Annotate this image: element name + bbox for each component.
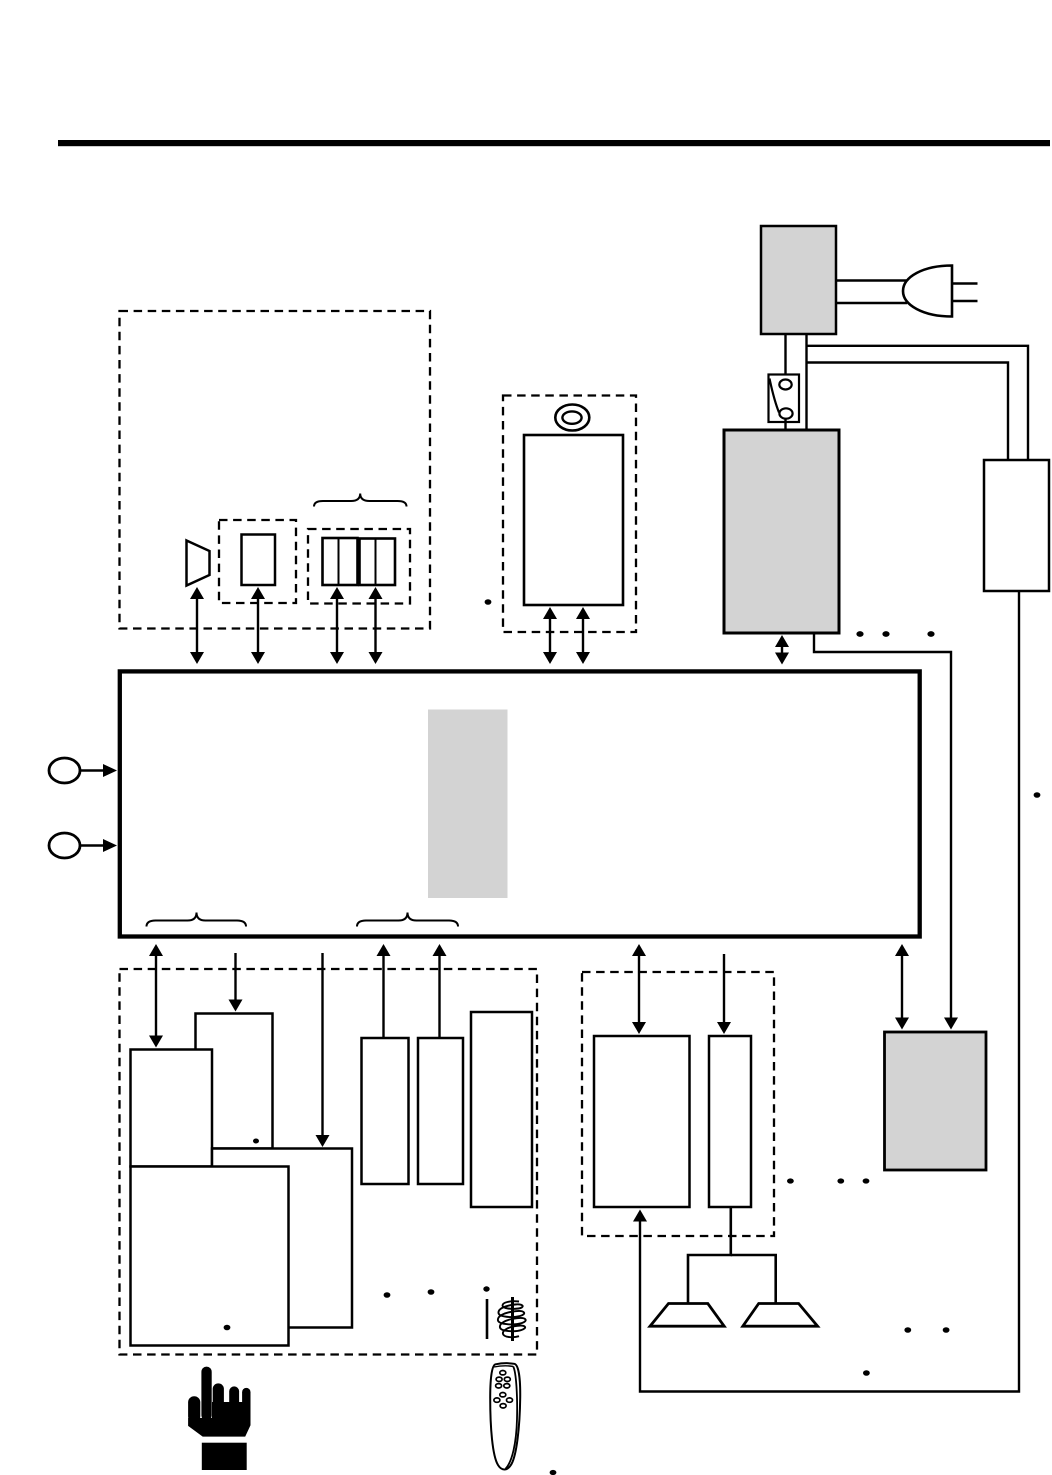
key board 2 divider (375, 539, 377, 586)
wire switch to power supply (784, 418, 786, 430)
brace over key boards (314, 494, 407, 507)
wire transformer to switch (784, 334, 786, 380)
key board 2 (360, 539, 396, 586)
dot right margin (1034, 792, 1041, 798)
remote control body (490, 1363, 520, 1469)
coil scribble (498, 1301, 526, 1337)
dot in R1 (253, 1139, 259, 1144)
double arrow key board 1 to main board (330, 587, 344, 664)
switch lever (770, 379, 780, 413)
wire power supply to power amp block (814, 633, 951, 1022)
voltage selector box (984, 460, 1049, 591)
rect R3 (212, 1149, 352, 1328)
CD servo board rectangle (524, 435, 623, 605)
remote control thickness line (506, 1366, 518, 1468)
double arrow speaker to main board (190, 587, 204, 664)
display unit dashed box (219, 520, 296, 603)
main board box (120, 671, 920, 936)
switch contact lower (779, 408, 792, 418)
main board gray block (428, 710, 508, 899)
speaker trapezoid icon (187, 541, 210, 586)
input jack circle 1 (49, 758, 80, 783)
brace bottom-right inside main board (357, 913, 458, 927)
rect E (471, 1012, 532, 1207)
wire to voltage selector (outer) (807, 346, 1029, 460)
stem of i glyph (486, 1299, 489, 1339)
arrowhead up into rect F bottom (633, 1210, 647, 1222)
bottom-middle dashed box (582, 972, 774, 1236)
plug prong lower (952, 300, 978, 303)
dot below rect D (428, 1289, 435, 1295)
key boards dashed box (308, 529, 410, 604)
dot in R4 (224, 1325, 231, 1331)
double arrow display to main board (251, 587, 265, 664)
coil axis line (511, 1297, 514, 1341)
AC cord wire upper (836, 279, 907, 281)
double arrow main board to rect F (632, 944, 646, 1034)
rect R2 (131, 1050, 213, 1167)
arrow jack 1 into main board (80, 764, 117, 777)
remote buttons (494, 1371, 513, 1409)
rect D (418, 1038, 463, 1184)
rect C (362, 1038, 409, 1184)
right speaker trapezoid (743, 1304, 818, 1327)
input jack circle 2 (49, 833, 80, 858)
top rule (58, 140, 1050, 146)
power amp block (gray) (885, 1032, 987, 1170)
switch contact upper (779, 380, 791, 390)
left speaker trapezoid (650, 1304, 724, 1327)
front panel assembly dashed box (120, 311, 431, 629)
double arrow power supply to main board (775, 635, 789, 665)
arrow jack 2 into main board (80, 839, 117, 852)
wire to voltage selector (inner) (807, 363, 1009, 461)
key board 1 divider (338, 538, 340, 585)
wire rect G to speakers (688, 1207, 731, 1304)
AC cord wire lower (836, 302, 907, 304)
dots near speakers right (904, 1327, 911, 1333)
arrowhead into bottom-right gray box (from power supply) (944, 1018, 958, 1030)
CD disc inner ellipse (562, 411, 581, 423)
power transformer (gray) (761, 226, 836, 334)
double arrow main board to R2 (149, 944, 163, 1048)
wire transformer to power supply (right) (805, 334, 807, 430)
up arrow rect D to main board (433, 944, 447, 1038)
down arrow main board to rect G (717, 954, 731, 1034)
display rectangle (242, 535, 276, 586)
long down arrow main board to R3 (316, 953, 330, 1147)
double arrow main board to power amp (gray) (895, 944, 909, 1030)
dot near remote (550, 1470, 557, 1475)
rect F (594, 1036, 690, 1207)
key board 1 (323, 538, 358, 585)
double arrow CD to main board 1 (543, 607, 557, 664)
dot left of CD box (485, 599, 492, 605)
dots row below dashed box (787, 1178, 794, 1183)
up arrow rect C to main board (377, 944, 391, 1038)
rect R4 (131, 1167, 289, 1346)
power supply board (gray) (724, 430, 839, 633)
dot of i glyph (483, 1286, 489, 1291)
AC plug body (903, 266, 952, 317)
CD disc outer ellipse (555, 405, 589, 431)
double arrow CD to main board 2 (576, 607, 590, 664)
dots row right of power supply (856, 631, 863, 637)
power switch box (769, 375, 800, 423)
down arrow main board to R1 (229, 953, 243, 1012)
bottom-left dashed box (120, 969, 538, 1355)
wire speaker right branch (731, 1255, 776, 1304)
remote control top edge line (494, 1366, 513, 1367)
rect R1 (196, 1014, 273, 1149)
plug prong upper (952, 282, 978, 285)
double arrow key board 2 to main board (369, 587, 383, 664)
CD mechanism dashed box (503, 396, 636, 633)
dot lower right (863, 1370, 870, 1376)
wire voltage selector to tuner loop (640, 591, 1019, 1392)
rect G (709, 1036, 751, 1207)
hand icon (pointing finger) (188, 1367, 250, 1470)
brace bottom-left inside main board (147, 913, 247, 927)
dot below rect C (384, 1292, 391, 1298)
